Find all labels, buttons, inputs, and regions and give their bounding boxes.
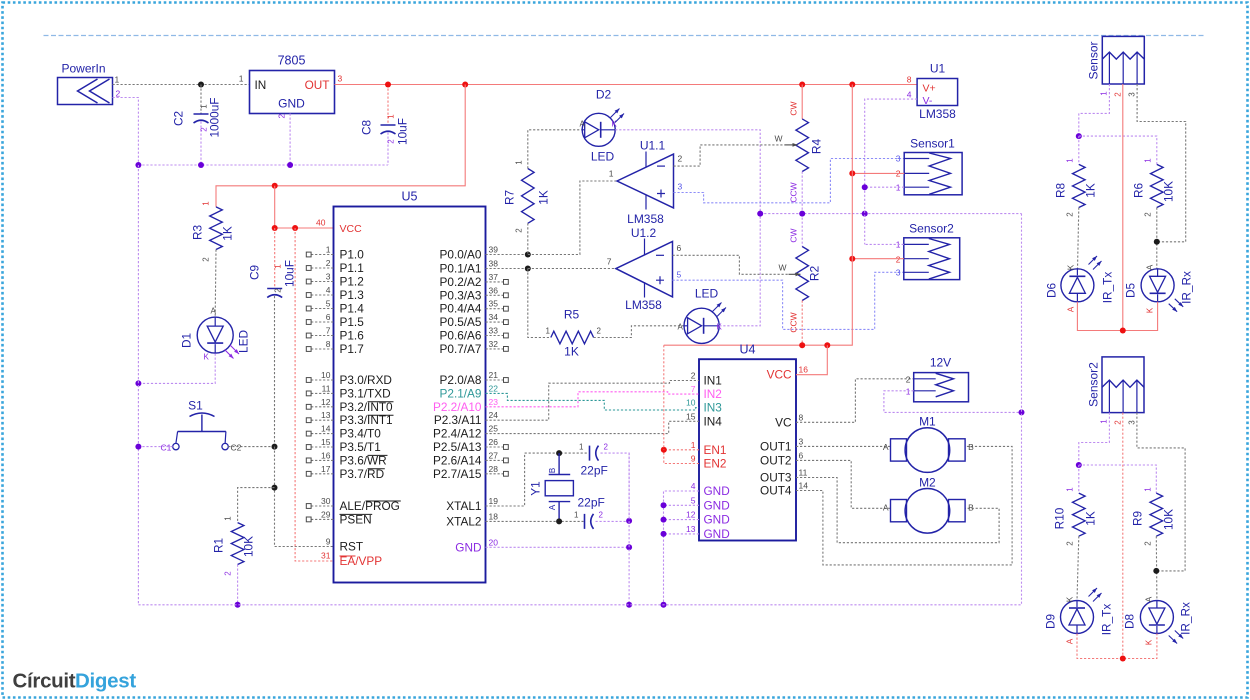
wire R8 to D6 [1078, 208, 1079, 269]
wire divider bridge top [1079, 136, 1157, 164]
svg-text:P2.0/A8: P2.0/A8 [440, 373, 482, 387]
node U4 gnd 12 [661, 517, 667, 523]
svg-text:1: 1 [1066, 487, 1075, 492]
wire U4 OUT2 to M2 A [796, 460, 891, 508]
capacitor C2 1000uF [172, 85, 222, 166]
node ground rail left [135, 162, 141, 168]
svg-text:7805: 7805 [278, 54, 306, 68]
wire U1.2 pin6 to R2 wiper [673, 255, 789, 274]
node VCC U5 branch [272, 183, 278, 189]
svg-text:P1.2: P1.2 [340, 275, 364, 289]
svg-text:M1: M1 [919, 415, 936, 429]
wire sensor2 pin1 to divider [1079, 413, 1110, 465]
LED D2 [580, 88, 625, 164]
U5 pin 5 P1.4 stub [306, 299, 364, 316]
U5 pin 9 RST [326, 537, 363, 554]
svg-text:37: 37 [489, 272, 499, 282]
svg-text:11: 11 [322, 383, 331, 393]
svg-text:D6: D6 [1045, 283, 1059, 299]
LED D8 IR_Rx [1123, 596, 1193, 645]
svg-text:P0.2/A2: P0.2/A2 [440, 275, 482, 289]
svg-text:2: 2 [515, 228, 524, 233]
wire VCC to U5 pin40 [275, 186, 334, 228]
svg-text:1: 1 [224, 516, 233, 521]
U5 pin 25 P2.4/A12 [433, 424, 498, 441]
svg-text:K: K [1066, 596, 1075, 602]
svg-text:R2: R2 [808, 266, 822, 282]
connector Sensor1 [896, 137, 962, 195]
capacitor C9 10uF [248, 228, 297, 447]
wire P2.4 to U4 IN4 [486, 421, 700, 433]
wire reset net vertical [275, 447, 334, 547]
svg-text:7: 7 [691, 384, 696, 394]
wire VCC to U5 area [216, 85, 465, 207]
wire P2.1 to U4 IN3 [486, 393, 700, 410]
svg-text:A: A [1146, 264, 1155, 270]
wire P0.0 to U1.1 output [528, 181, 617, 255]
wire R1 to ground rail [237, 565, 239, 605]
U5 pin 31 EA/VPP [321, 551, 382, 569]
svg-text:2: 2 [896, 255, 901, 265]
svg-text:2: 2 [599, 511, 604, 520]
svg-text:OUT: OUT [305, 78, 330, 92]
wire VCC to EN vertical [663, 345, 665, 450]
svg-text:10uF: 10uF [396, 118, 410, 145]
resistor R5 1K [546, 308, 602, 359]
U4 pin 8 VC [775, 412, 803, 429]
svg-text:21: 21 [489, 370, 499, 380]
node U4 gnd rail [661, 602, 667, 608]
svg-text:P0.4/A4: P0.4/A4 [440, 302, 482, 316]
capacitor C4 22pF top [579, 443, 608, 478]
svg-text:P3.4/T0: P3.4/T0 [340, 427, 382, 441]
svg-text:22pF: 22pF [581, 464, 608, 478]
svg-text:14: 14 [799, 481, 809, 491]
svg-text:LM358: LM358 [919, 107, 956, 121]
svg-text:1K: 1K [1084, 511, 1098, 526]
svg-text:P0.1/A1: P0.1/A1 [440, 262, 482, 276]
U4 pin 6 OUT2 [760, 450, 803, 467]
svg-text:7: 7 [326, 326, 331, 336]
svg-text:P1.6: P1.6 [340, 329, 365, 343]
svg-text:U1.1: U1.1 [640, 139, 666, 153]
node ground R1 [235, 602, 241, 608]
motor M2 [883, 476, 974, 534]
svg-text:P1.5: P1.5 [340, 315, 365, 329]
svg-text:1: 1 [202, 201, 211, 206]
wire P0.1 to U1.2 output [528, 268, 616, 270]
U5 pin 39 P0.0/A0 [440, 245, 499, 262]
wire PowerIn pin2 to GND rail [113, 98, 139, 166]
U5 pin 15 P3.5/T1 stub [306, 437, 381, 454]
wire 12V pin1 to ground [884, 391, 1022, 413]
node LED rail top [1120, 328, 1126, 334]
U5 pin 30 ALE/PROG stub [306, 496, 400, 513]
svg-text:9: 9 [691, 454, 696, 464]
wire P0.1 net to R5 [528, 269, 551, 338]
svg-text:3: 3 [1128, 92, 1137, 97]
node VCC U4 branch [824, 342, 830, 348]
svg-text:K: K [1145, 639, 1154, 645]
svg-text:14: 14 [321, 424, 331, 434]
wire sensor pin1 to divider [1079, 84, 1110, 136]
node divider top [1076, 133, 1082, 139]
svg-text:RST: RST [340, 540, 364, 554]
svg-text:IN4: IN4 [704, 414, 723, 428]
svg-text:35: 35 [489, 299, 499, 309]
svg-text:15: 15 [321, 437, 331, 447]
svg-text:10uF: 10uF [283, 260, 297, 287]
wire U5 P0.1 net [486, 268, 528, 270]
svg-text:LED: LED [695, 287, 719, 301]
wire R6 to D5 [1156, 208, 1158, 269]
svg-text:10K: 10K [242, 536, 256, 557]
switch S1 [161, 399, 242, 453]
svg-text:3: 3 [1128, 420, 1137, 425]
svg-text:33: 33 [489, 326, 499, 336]
svg-text:2: 2 [1144, 541, 1153, 546]
svg-text:P2.6/A14: P2.6/A14 [433, 453, 482, 467]
svg-text:20: 20 [489, 537, 499, 547]
svg-text:C9: C9 [248, 265, 262, 280]
node XTAL2 crystal [556, 518, 562, 524]
LED D3 status [678, 287, 727, 344]
svg-text:8: 8 [907, 75, 912, 85]
svg-text:1: 1 [387, 114, 396, 119]
wire ground rail bottom [138, 604, 1021, 606]
svg-text:1: 1 [1144, 158, 1153, 163]
U4 pin 1 EN1 [691, 440, 727, 457]
wire sensor2 pin3 signal [1137, 413, 1185, 571]
node XTAL1 crystal [556, 450, 562, 456]
svg-text:IR_Tx: IR_Tx [1100, 604, 1114, 636]
svg-text:3: 3 [326, 272, 331, 282]
svg-text:GND: GND [704, 498, 730, 512]
svg-text:P2.4/A12: P2.4/A12 [433, 427, 482, 441]
svg-text:GND: GND [704, 484, 730, 498]
node ground sensor1 [862, 184, 868, 190]
svg-text:4: 4 [907, 90, 912, 100]
U5 pin 7 P1.6 stub [306, 326, 364, 343]
U5 pin 32 P0.7/A7 [440, 339, 509, 356]
svg-text:32: 32 [489, 339, 499, 349]
svg-text:2: 2 [224, 571, 233, 576]
svg-text:XTAL1: XTAL1 [446, 499, 481, 513]
U4 pin 5 GND [691, 495, 730, 512]
svg-text:1: 1 [1100, 91, 1109, 96]
svg-text:R3: R3 [191, 225, 205, 241]
svg-text:1K: 1K [1084, 183, 1098, 198]
node U4 gnd 5 [661, 502, 667, 508]
connector Sensor2 [896, 222, 960, 280]
svg-text:U1: U1 [930, 62, 946, 76]
svg-text:VCC: VCC [340, 223, 363, 235]
svg-text:1K: 1K [221, 226, 235, 241]
U4 pin 16 VCC [767, 365, 809, 382]
wire R9 to D8 [1155, 536, 1158, 600]
wire sensor pin3 signal [1137, 84, 1186, 242]
capacitor C8 10uF [360, 85, 410, 166]
svg-text:23: 23 [489, 397, 499, 407]
svg-text:IN3: IN3 [704, 401, 723, 415]
svg-text:P1.3: P1.3 [340, 288, 365, 302]
svg-text:P3.1/TXD: P3.1/TXD [340, 386, 391, 400]
svg-text:7: 7 [607, 257, 612, 267]
U5 pin 12 P3.2/INT0 stub [306, 397, 393, 414]
U4 pin 7 IN2 [691, 384, 722, 401]
svg-text:6: 6 [326, 312, 331, 322]
svg-text:2: 2 [1114, 92, 1123, 97]
U5 pin 11 P3.1/TXD stub [306, 383, 390, 400]
svg-text:OUT2: OUT2 [760, 453, 791, 467]
node power input junction [198, 82, 204, 88]
resistor R7 1K [503, 160, 551, 255]
svg-text:A: A [211, 307, 217, 316]
wire ground rail upper [138, 164, 388, 166]
wire U4 OUT1 to M1 A [796, 445, 891, 447]
svg-text:1K: 1K [537, 190, 551, 205]
svg-text:CCW: CCW [789, 182, 799, 202]
svg-text:P0.7/A7: P0.7/A7 [440, 342, 482, 356]
svg-text:XTAL2: XTAL2 [446, 514, 481, 528]
svg-text:R1: R1 [212, 538, 226, 553]
motor driver U4 L293D [699, 343, 796, 541]
svg-text:2: 2 [1114, 420, 1123, 425]
svg-text:VC: VC [775, 415, 792, 429]
node divider bottom [1076, 462, 1082, 468]
svg-text:LED: LED [591, 150, 615, 164]
svg-text:CW: CW [789, 101, 799, 115]
node reset R1 [272, 485, 278, 491]
resistor R10 1K [1053, 465, 1098, 546]
svg-text:29: 29 [321, 509, 331, 519]
svg-text:1: 1 [691, 440, 696, 450]
node VCC R4 [799, 82, 805, 88]
svg-text:38: 38 [489, 259, 499, 269]
svg-text:R5: R5 [564, 308, 580, 322]
svg-text:CW: CW [789, 228, 799, 242]
svg-text:28: 28 [489, 464, 499, 474]
U4 pin 2 IN1 [691, 371, 722, 388]
wire S1 C2 to reset net [228, 446, 274, 448]
U5 pin 20 GND [455, 537, 498, 554]
svg-text:P1.1: P1.1 [340, 261, 364, 275]
wire VCC sensors vertical [664, 85, 853, 346]
svg-text:1: 1 [546, 327, 551, 336]
svg-text:Sensor2: Sensor2 [1087, 362, 1101, 407]
svg-text:1: 1 [906, 387, 911, 397]
svg-text:8: 8 [326, 339, 331, 349]
svg-text:LED: LED [237, 330, 251, 353]
U5 pin 4 P1.3 stub [306, 285, 364, 302]
U5 pin 1 P1.0 stub [306, 245, 364, 262]
U5 pin 35 P0.4/A4 [440, 299, 509, 316]
svg-text:4: 4 [691, 481, 696, 491]
svg-text:17: 17 [321, 464, 331, 474]
svg-text:R8: R8 [1054, 183, 1068, 199]
U5 pin 14 P3.4/T0 stub [306, 424, 381, 441]
svg-text:W: W [778, 263, 786, 273]
wire U1.1 pin2 to R4 wiper [674, 145, 785, 166]
node P0.1 R5 [525, 266, 531, 272]
svg-text:10: 10 [321, 370, 331, 380]
svg-text:2: 2 [202, 257, 211, 262]
node ground D2 D3 [757, 211, 763, 217]
U5 pin 28 P2.7/A15 [433, 464, 508, 481]
U5 pin 18 XTAL2 [446, 511, 498, 528]
capacitor C5 22pF bottom [574, 496, 605, 529]
U5 pin 8 P1.7 stub [306, 339, 363, 356]
svg-text:12V: 12V [930, 356, 951, 370]
svg-text:A: A [1066, 638, 1075, 644]
U4 pin 9 EN2 [691, 454, 727, 471]
svg-text:GND: GND [455, 540, 481, 554]
svg-text:B: B [968, 442, 974, 452]
svg-text:PowerIn: PowerIn [62, 62, 106, 76]
U5 overline bars [340, 402, 401, 515]
U4 pin 12 GND [686, 510, 730, 527]
svg-text:C2: C2 [231, 443, 242, 453]
svg-text:IN: IN [255, 78, 267, 92]
U4 pin 4 GND [691, 481, 730, 498]
node ground C5 [626, 518, 632, 524]
svg-text:V+: V+ [923, 83, 936, 95]
svg-text:2: 2 [326, 258, 331, 268]
resistor R9 10K [1131, 487, 1176, 546]
connector 12V [906, 356, 969, 402]
svg-text:9: 9 [326, 537, 331, 547]
svg-text:5: 5 [677, 270, 682, 280]
svg-text:2: 2 [604, 443, 609, 452]
svg-text:U4: U4 [740, 343, 756, 357]
svg-text:B: B [968, 503, 974, 513]
svg-text:D9: D9 [1044, 614, 1058, 629]
svg-text:3: 3 [799, 436, 804, 446]
wire U1.2 pin5 to Sensor2 pin3 [673, 272, 904, 329]
svg-text:Y1: Y1 [529, 481, 543, 495]
U4 pin 13 GND [686, 524, 730, 541]
svg-text:11: 11 [799, 468, 808, 478]
svg-text:P0.0/A0: P0.0/A0 [440, 248, 482, 262]
U5 pin 26 P2.5/A13 [433, 437, 508, 454]
svg-text:2: 2 [274, 288, 283, 293]
svg-text:A: A [883, 503, 889, 513]
svg-text:Círcuit: Círcuit [13, 670, 76, 693]
svg-text:3: 3 [678, 182, 683, 192]
U5 pin 34 P0.5/A5 [440, 312, 509, 329]
svg-text:2: 2 [277, 114, 287, 119]
svg-text:1: 1 [1144, 487, 1153, 492]
svg-text:K: K [1146, 307, 1155, 313]
svg-text:P1.0: P1.0 [340, 248, 365, 262]
svg-text:P0.5/A5: P0.5/A5 [440, 315, 482, 329]
svg-text:13: 13 [686, 524, 696, 534]
U5 pin 17 P3.7/RD stub [306, 464, 384, 481]
wire D1 cathode to ground [138, 354, 215, 384]
svg-text:R4: R4 [810, 139, 824, 155]
node LED rail bottom [1120, 656, 1126, 662]
potentiometer R4 [774, 85, 823, 214]
svg-text:LM358: LM358 [625, 298, 662, 312]
regulator U3 7805 [239, 54, 343, 119]
svg-text:1: 1 [609, 169, 614, 179]
node VCC R2 branch [799, 342, 805, 348]
wire Sensor2 pin2 to VCC [852, 258, 904, 260]
svg-text:3: 3 [896, 154, 901, 164]
svg-text:1: 1 [326, 245, 331, 255]
wire S1 C1 to ground [138, 446, 172, 448]
svg-text:34: 34 [489, 312, 499, 322]
svg-text:15: 15 [686, 411, 696, 421]
node VCC sensors [849, 82, 855, 88]
svg-text:26: 26 [489, 437, 499, 447]
node VCC sensor2 [849, 256, 855, 262]
wire D3 cathode to ground rail [719, 214, 760, 326]
resistor R1 10K [212, 516, 256, 576]
U5 pin 21 P2.0/A8 [440, 370, 509, 387]
LED D1 [180, 307, 251, 362]
wire U1.1 pin3 to Sensor1 pin3 [674, 159, 905, 203]
wire R7 to D2 anode [528, 130, 583, 169]
U5 pin 22 P2.1/A9 [440, 383, 499, 400]
svg-text:M2: M2 [919, 476, 936, 490]
node ground rail 7805 [287, 162, 293, 168]
svg-text:1: 1 [515, 160, 524, 165]
svg-text:P2.7/A15: P2.7/A15 [433, 467, 482, 481]
U5 pin 27 P2.6/A14 [433, 450, 508, 467]
wire ground right vertical [1021, 214, 1023, 604]
wire divider bridge bottom [1079, 465, 1157, 493]
wire U5 P0.0 net [486, 254, 528, 256]
node U4 gnd 13 [661, 531, 667, 537]
svg-text:12: 12 [686, 510, 696, 520]
U4 pin 10 IN3 [686, 398, 722, 415]
wire U4 OUT4 to M1 B [796, 446, 1012, 565]
connector Sensor top [1087, 36, 1145, 96]
svg-text:OUT4: OUT4 [760, 484, 792, 498]
U5 pin 10 P3.0/RXD stub [306, 370, 392, 387]
svg-text:1: 1 [1066, 158, 1075, 163]
svg-text:IR_Tx: IR_Tx [1101, 272, 1115, 304]
svg-text:K: K [1067, 264, 1076, 270]
svg-text:1: 1 [115, 75, 120, 85]
svg-text:P3.0/RXD: P3.0/RXD [340, 373, 392, 387]
node sensor2 signal R9 [1153, 568, 1159, 574]
crystal Y1 [529, 453, 574, 521]
svg-text:U1.2: U1.2 [631, 226, 657, 240]
svg-text:D1: D1 [180, 333, 194, 348]
LED D5 IR_Rx [1124, 264, 1194, 313]
wire Sensor1 pin1 to ground [865, 186, 905, 188]
svg-text:39: 39 [489, 245, 499, 255]
node VCC sensor1 [849, 170, 855, 176]
wire R3 to D1 [214, 250, 217, 317]
resistor R3 1K [191, 201, 235, 262]
wire EA VPP [295, 228, 333, 561]
svg-text:10K: 10K [1162, 181, 1176, 202]
svg-text:A: A [548, 504, 557, 510]
svg-text:A: A [1145, 596, 1154, 602]
svg-text:6: 6 [677, 243, 682, 253]
potentiometer R2 [778, 214, 821, 346]
node ground 12V [1019, 409, 1025, 415]
connector Sensor2 right [1087, 357, 1145, 425]
LED D6 IR_Tx [1045, 256, 1115, 312]
svg-text:GND: GND [278, 97, 305, 111]
svg-text:R9: R9 [1131, 511, 1145, 526]
svg-text:10K: 10K [1162, 509, 1176, 530]
U5 pin 38 P0.1/A1 [440, 259, 499, 276]
